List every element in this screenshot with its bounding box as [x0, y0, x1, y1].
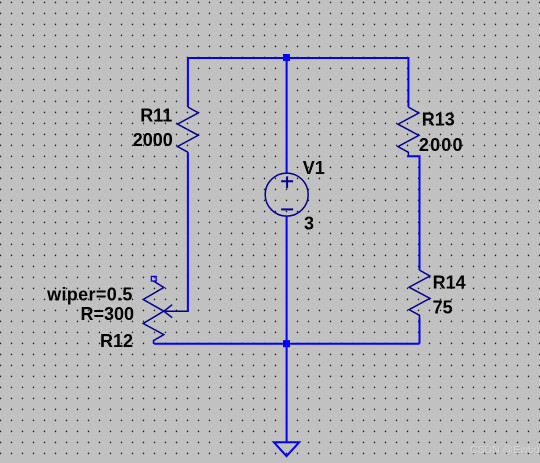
wire R14 bottom [419, 318, 421, 344]
wire top rail [188, 58, 409, 107]
wire R11 to wiper [187, 152, 189, 311]
resistor R13 [398, 107, 419, 155]
svg-text:R=300: R=300 [80, 304, 134, 324]
svg-text:wiper=0.5: wiper=0.5 [46, 284, 133, 304]
svg-text:R13: R13 [422, 110, 455, 130]
watermark CSDN @Ewbo5 [470, 444, 540, 457]
svg-text:V1: V1 [303, 158, 325, 178]
wire bottom rail [154, 343, 420, 345]
svg-text:R14: R14 [433, 273, 466, 293]
svg-text:3: 3 [304, 213, 314, 233]
svg-text:2000: 2000 [133, 130, 173, 150]
voltage source V1 [265, 173, 308, 216]
svg-text:75: 75 [433, 297, 453, 317]
wire ground stub [286, 344, 288, 442]
node bottom junction [283, 340, 290, 347]
svg-text:R12: R12 [100, 331, 133, 351]
ground [274, 442, 299, 456]
wire V1 bottom [286, 216, 288, 344]
svg-text:R11: R11 [140, 106, 172, 126]
wire V1 top stub [286, 58, 288, 174]
wire R13 to R14 jog [408, 155, 419, 270]
potentiometer R12 [143, 276, 189, 343]
svg-text:2000: 2000 [419, 135, 464, 155]
svg-text:CSDN @Ewbo5: CSDN @Ewbo5 [470, 444, 540, 456]
resistor R11 [178, 107, 199, 152]
resistor R14 [409, 270, 430, 318]
node top junction [283, 54, 290, 61]
